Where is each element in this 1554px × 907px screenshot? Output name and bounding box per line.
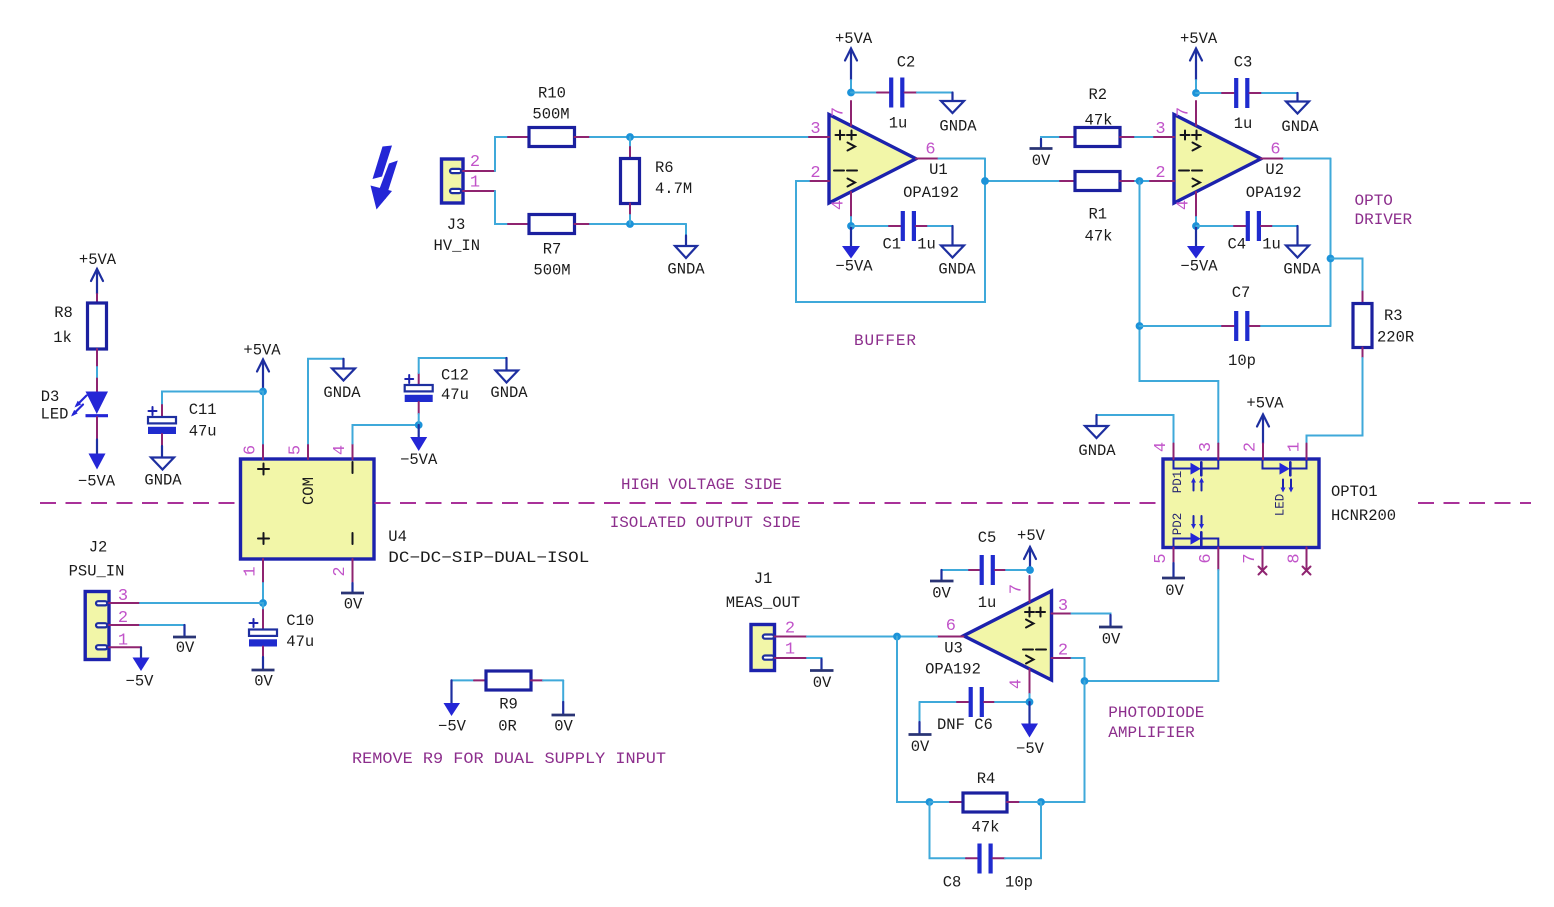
- wire J3.2 to top rail: [495, 137, 508, 171]
- pin 3 of OPTO1: [1197, 442, 1218, 459]
- svg-text:GNDA: GNDA: [1281, 118, 1319, 136]
- svg-text:4: 4: [1152, 442, 1171, 452]
- svg-text:+5VA: +5VA: [835, 30, 873, 48]
- svg-text:R3: R3: [1384, 307, 1403, 325]
- power 0V at C10: [252, 657, 275, 691]
- svg-text:PD1: PD1: [1171, 471, 1185, 494]
- svg-text:2: 2: [331, 566, 350, 576]
- DC-DC module U4: [241, 459, 590, 567]
- capacitor C2: [851, 54, 953, 133]
- junction R4 right node: [1037, 798, 1045, 806]
- pin 2 of U3: [1052, 642, 1072, 661]
- svg-text:HV_IN: HV_IN: [434, 237, 481, 255]
- svg-text:0V: 0V: [911, 738, 930, 756]
- svg-text:GNDA: GNDA: [939, 118, 977, 136]
- photodiode PD2 inside OPTO1: [1171, 513, 1218, 548]
- svg-text:7: 7: [830, 107, 849, 117]
- ground GNDA at OPTO pin4: [1078, 415, 1173, 460]
- svg-text:7: 7: [1241, 553, 1260, 563]
- svg-text:6: 6: [925, 141, 935, 160]
- svg-text:BUFFER: BUFFER: [854, 332, 916, 350]
- junction C12/-5VA node: [415, 421, 423, 429]
- svg-text:C12: C12: [441, 367, 469, 385]
- wire J3.1 to bottom rail: [495, 191, 508, 224]
- svg-text:R6: R6: [655, 159, 674, 177]
- pin 7 of U2: [1175, 101, 1197, 126]
- svg-text:R9: R9: [499, 696, 518, 714]
- svg-text:C10: C10: [286, 612, 314, 630]
- junction U4 pin1 / J2 / C10 node: [259, 599, 267, 607]
- connector J2: [69, 539, 125, 660]
- wire R10 to U1 pin3: [590, 136, 809, 138]
- capacitor C11 electrolytic: [148, 392, 263, 447]
- svg-text:47k: 47k: [1085, 112, 1113, 130]
- resistor R6: [621, 137, 693, 224]
- svg-text:500M: 500M: [533, 262, 570, 280]
- svg-text:0R: 0R: [498, 718, 517, 736]
- svg-text:C4: C4: [1227, 236, 1246, 254]
- svg-text:DRIVER: DRIVER: [1355, 211, 1413, 229]
- svg-text:J1: J1: [754, 570, 773, 588]
- junction U2 output / R3 branch: [1327, 255, 1335, 263]
- svg-text:D3: D3: [41, 388, 60, 406]
- svg-text:−5VA: −5VA: [78, 473, 116, 491]
- svg-text:GNDA: GNDA: [938, 261, 976, 279]
- svg-text:4: 4: [1008, 679, 1027, 689]
- power 0V at R9: [552, 680, 576, 735]
- svg-text:1u: 1u: [978, 594, 997, 612]
- svg-text:0V: 0V: [1165, 582, 1184, 600]
- ground GNDA at C11: [144, 446, 182, 490]
- capacitor C10 electrolytic: [249, 603, 314, 657]
- svg-text:HCNR200: HCNR200: [1331, 507, 1396, 525]
- pin 4 of U1: [830, 192, 852, 226]
- junction U3 pin7 node: [1026, 566, 1034, 574]
- power 0V at J1 pin1: [807, 658, 834, 692]
- power +5VA above U1: [835, 30, 873, 93]
- connector J3: [434, 159, 481, 255]
- pin 4 of OPTO1: [1152, 442, 1174, 459]
- wire J1 pin2 to U3 output: [807, 636, 937, 638]
- svg-text:U1: U1: [929, 161, 948, 179]
- svg-text:1: 1: [785, 641, 795, 660]
- svg-text:4: 4: [1175, 200, 1194, 210]
- svg-text:DNF C6: DNF C6: [937, 716, 993, 734]
- svg-text:C2: C2: [897, 54, 916, 72]
- LED inside OPTO1: [1263, 459, 1307, 516]
- junction R4 left node: [926, 798, 934, 806]
- pin 3 of J2: [109, 587, 140, 606]
- svg-text:1: 1: [118, 631, 128, 650]
- power 0V at R2: [1030, 137, 1061, 170]
- svg-text:3: 3: [1197, 442, 1216, 452]
- pin 3 of U2: [1154, 120, 1174, 139]
- capacitor C6: [920, 687, 1030, 734]
- svg-text:MEAS_OUT: MEAS_OUT: [726, 594, 800, 612]
- svg-text:2: 2: [470, 153, 480, 172]
- power 0V at C5: [930, 570, 954, 603]
- junction U2 pin7 node: [1192, 89, 1200, 97]
- svg-text:1: 1: [242, 566, 261, 576]
- svg-text:REMOVE R9 FOR DUAL SUPPLY INPU: REMOVE R9 FOR DUAL SUPPLY INPUT: [352, 750, 666, 768]
- junction U1 pin7 node: [847, 89, 855, 97]
- svg-text:4: 4: [331, 445, 350, 455]
- junction U4 pin6 node: [259, 388, 267, 396]
- power 0V at C6: [909, 702, 932, 756]
- pin 3 of U1: [809, 120, 829, 139]
- capacitor C8: [930, 802, 1042, 892]
- svg-text:U4: U4: [388, 528, 407, 546]
- power -5VA below U1: [835, 226, 873, 276]
- capacitor C1: [851, 211, 953, 254]
- svg-text:2: 2: [118, 609, 128, 628]
- wire U3 output node down to R4: [897, 637, 930, 803]
- capacitor C7: [1140, 284, 1331, 370]
- power -5V at R9: [438, 680, 467, 735]
- svg-text:C5: C5: [978, 529, 997, 547]
- svg-text:0V: 0V: [932, 585, 951, 603]
- power +5VA above R8: [79, 251, 117, 294]
- op-amp U3 OPA192 (mirrored): [925, 591, 1051, 680]
- svg-text:2: 2: [1155, 164, 1165, 183]
- pin 1 of J2: [109, 631, 141, 650]
- svg-text:LED: LED: [41, 406, 69, 424]
- power -5VA below D3: [78, 440, 116, 491]
- wire inverting node down to C7 and OPTO pin3: [1140, 181, 1219, 444]
- svg-text:PD2: PD2: [1171, 513, 1185, 536]
- svg-text:LED: LED: [1274, 494, 1288, 517]
- svg-text:+5VA: +5VA: [1246, 395, 1284, 413]
- svg-text:R8: R8: [54, 304, 73, 322]
- label PHOTODIODE AMPLIFIER: [1108, 704, 1204, 742]
- svg-text:5: 5: [1152, 553, 1171, 563]
- svg-text:1k: 1k: [53, 329, 72, 347]
- pin 7 of U1: [830, 101, 852, 126]
- pin 5 of OPTO1 with 0V: [1152, 548, 1185, 601]
- junction bottom rail: [626, 220, 634, 228]
- svg-text:3: 3: [810, 120, 820, 139]
- pin 4 of U3: [1008, 669, 1030, 702]
- capacitor C12 electrolytic: [405, 358, 507, 425]
- ground GNDA at C2: [939, 93, 977, 136]
- svg-text:2: 2: [810, 164, 820, 183]
- resistor R1: [1060, 172, 1150, 246]
- svg-text:47k: 47k: [972, 819, 1000, 837]
- svg-text:C1: C1: [882, 236, 901, 254]
- junction U1 pin4 node: [847, 222, 855, 230]
- pin 2 of J2: [109, 609, 140, 628]
- ground GNDA at C12: [490, 358, 528, 402]
- LED D3: [41, 379, 108, 440]
- svg-text:+5VA: +5VA: [243, 342, 281, 360]
- svg-text:6: 6: [946, 617, 956, 636]
- svg-text:0V: 0V: [554, 718, 573, 736]
- junction U3 output node: [893, 633, 901, 641]
- svg-text:ISOLATED OUTPUT SIDE: ISOLATED OUTPUT SIDE: [610, 514, 801, 532]
- junction C7 left node: [1136, 322, 1144, 330]
- svg-text:8: 8: [1286, 553, 1305, 563]
- isolation barrier dashed line left: [40, 502, 240, 504]
- svg-text:R7: R7: [543, 241, 562, 259]
- pin 2 of U4 with 0V: [331, 559, 364, 614]
- resistor R4: [930, 770, 1042, 837]
- wire to R3: [1331, 259, 1363, 292]
- capacitor C4: [1196, 211, 1298, 254]
- svg-text:−5VA: −5VA: [835, 258, 873, 276]
- isolation barrier dashed line right: [1418, 502, 1531, 504]
- junction top rail: [626, 133, 634, 141]
- svg-text:1: 1: [1286, 442, 1305, 452]
- svg-text:220R: 220R: [1377, 329, 1414, 347]
- pin 1 of OPTO1: [1286, 442, 1307, 459]
- svg-text:−5V: −5V: [438, 718, 467, 736]
- svg-text:GNDA: GNDA: [1078, 442, 1116, 460]
- svg-text:1u: 1u: [917, 236, 936, 254]
- resistor R3: [1353, 292, 1414, 359]
- svg-text:DC−DC−SIP−DUAL−ISOL: DC−DC−SIP−DUAL−ISOL: [388, 549, 589, 567]
- svg-text:OPTO: OPTO: [1355, 192, 1393, 210]
- power -5V at J2 pin1: [126, 647, 155, 690]
- svg-text:OPTO1: OPTO1: [1331, 483, 1378, 501]
- svg-text:10p: 10p: [1005, 874, 1033, 892]
- pin 2 of J1: [775, 620, 808, 639]
- svg-text:−5V: −5V: [126, 673, 155, 691]
- pin 4 of U2: [1175, 192, 1197, 226]
- junction U1 output node: [981, 177, 989, 185]
- wire R3 to OPTO pin1: [1307, 358, 1363, 444]
- pin 1 of J1: [775, 641, 808, 660]
- svg-text:0V: 0V: [813, 674, 832, 692]
- pin 6 of U4: [242, 392, 264, 460]
- svg-text:3: 3: [1058, 597, 1068, 616]
- svg-text:2: 2: [1242, 442, 1261, 452]
- pin 6 of U3: [937, 617, 964, 637]
- op-amp U2 OPA192: [1174, 115, 1302, 204]
- svg-text:R2: R2: [1088, 86, 1107, 104]
- pin 3 of U3: [1052, 597, 1072, 616]
- junction U3 pin4 node: [1026, 698, 1034, 706]
- svg-text:J2: J2: [89, 539, 108, 557]
- resistor R9: [452, 671, 564, 736]
- svg-text:47u: 47u: [286, 633, 314, 651]
- label OPTO DRIVER: [1355, 192, 1413, 229]
- pin 5 of U4 with GNDA: [287, 359, 362, 459]
- svg-text:R1: R1: [1088, 206, 1107, 224]
- svg-text:1u: 1u: [1262, 236, 1281, 254]
- pin 4 of U4: [331, 425, 419, 459]
- pin 1 of J3: [463, 174, 495, 193]
- svg-text:2: 2: [1058, 642, 1068, 661]
- power +5V at U3 pin7: [1017, 527, 1046, 570]
- svg-text:0V: 0V: [176, 639, 195, 657]
- optocoupler OPTO1 HCNR200 body: [1163, 459, 1396, 548]
- wire U1 output and feedback loop: [796, 159, 1060, 303]
- ground GNDA at C4: [1283, 226, 1321, 279]
- junction R1/U2 pin2 node: [1136, 177, 1144, 185]
- svg-text:−5VA: −5VA: [1180, 258, 1218, 276]
- pin 6 of OPTO1: [1197, 548, 1218, 571]
- resistor R7: [508, 215, 590, 280]
- resistor R8: [53, 294, 106, 379]
- svg-text:0V: 0V: [1032, 152, 1051, 170]
- svg-text:3: 3: [118, 587, 128, 606]
- svg-text:1u: 1u: [889, 115, 908, 133]
- svg-text:GNDA: GNDA: [1283, 261, 1321, 279]
- pin 2 of OPTO1: [1242, 442, 1264, 459]
- power +5VA above U4 pin6: [243, 342, 281, 392]
- power +5VA above U2: [1180, 30, 1218, 93]
- power -5V below U3: [1016, 702, 1045, 758]
- svg-text:+5VA: +5VA: [1180, 30, 1218, 48]
- capacitor C5: [942, 529, 1031, 612]
- power 0V at U3 pin3: [1072, 614, 1123, 649]
- power 0V at J2 pin2: [140, 625, 196, 657]
- svg-text:U2: U2: [1265, 161, 1284, 179]
- ground GNDA at C3: [1281, 93, 1319, 136]
- svg-text:−5V: −5V: [1016, 740, 1045, 758]
- svg-text:J3: J3: [447, 216, 466, 234]
- ground GNDA at C1: [938, 226, 976, 279]
- svg-text:+5VA: +5VA: [79, 251, 117, 269]
- op-amp U1 OPA192: [829, 115, 959, 204]
- svg-text:4: 4: [830, 200, 849, 210]
- svg-text:R10: R10: [538, 85, 566, 103]
- pin 7 of OPTO1 no-connect: [1241, 548, 1267, 575]
- svg-text:7: 7: [1175, 107, 1194, 117]
- svg-text:U3: U3: [944, 640, 963, 658]
- svg-text:GNDA: GNDA: [490, 384, 528, 402]
- connector J1: [726, 570, 800, 671]
- photodiode PD1 inside OPTO1: [1171, 459, 1218, 493]
- svg-text:C11: C11: [189, 401, 217, 419]
- svg-text:GNDA: GNDA: [667, 261, 705, 279]
- pin 1 of U4: [242, 559, 264, 603]
- svg-text:AMPLIFIER: AMPLIFIER: [1108, 724, 1195, 742]
- svg-text:4.7M: 4.7M: [655, 180, 692, 198]
- svg-text:1u: 1u: [1234, 115, 1253, 133]
- svg-text:R4: R4: [977, 770, 996, 788]
- wire U3 pin2 to feedback node: [1072, 658, 1085, 681]
- svg-text:PSU_IN: PSU_IN: [69, 563, 125, 581]
- svg-text:0V: 0V: [1102, 631, 1121, 649]
- svg-text:47k: 47k: [1085, 228, 1113, 246]
- power -5VA below U2: [1180, 226, 1218, 276]
- pin 6 of U2: [1261, 141, 1284, 160]
- high-voltage bolt symbol: [371, 146, 398, 210]
- pin 2 of U1: [809, 164, 829, 183]
- junction U2 pin4 node: [1192, 222, 1200, 230]
- svg-text:C8: C8: [943, 874, 962, 892]
- svg-text:1: 1: [470, 174, 480, 193]
- pin 2 of J3: [463, 153, 495, 172]
- pin 6 of U1: [916, 141, 939, 160]
- wire R7 to GNDA: [590, 223, 686, 225]
- svg-text:OPA192: OPA192: [1246, 184, 1302, 202]
- power +5VA at OPTO pin2: [1246, 395, 1284, 444]
- wire feedback node down to R4: [1041, 681, 1085, 802]
- svg-text:GNDA: GNDA: [323, 384, 361, 402]
- svg-text:+5V: +5V: [1017, 527, 1046, 545]
- svg-text:500M: 500M: [532, 106, 569, 124]
- junction U3 feedback node: [1081, 677, 1089, 685]
- svg-text:0V: 0V: [344, 596, 363, 614]
- svg-text:HIGH VOLTAGE SIDE: HIGH VOLTAGE SIDE: [621, 476, 782, 494]
- pin 2 of U2: [1150, 164, 1174, 183]
- svg-text:7: 7: [1008, 584, 1027, 594]
- svg-text:GNDA: GNDA: [144, 472, 182, 490]
- svg-text:3: 3: [1155, 120, 1165, 139]
- wire U2 output down to C7: [1284, 159, 1331, 327]
- svg-text:C7: C7: [1232, 284, 1251, 302]
- capacitor C3: [1196, 54, 1298, 134]
- svg-text:0V: 0V: [254, 673, 273, 691]
- svg-text:47u: 47u: [189, 423, 217, 441]
- svg-text:5: 5: [287, 445, 306, 455]
- svg-text:10p: 10p: [1228, 352, 1256, 370]
- svg-text:PHOTODIODE: PHOTODIODE: [1108, 704, 1204, 722]
- pin 8 of OPTO1 no-connect: [1286, 548, 1311, 575]
- wire OPTO pin6 to U3 feedback node: [1085, 570, 1219, 681]
- svg-text:47u: 47u: [441, 386, 469, 404]
- svg-text:6: 6: [1197, 553, 1216, 563]
- svg-text:OPA192: OPA192: [903, 184, 959, 202]
- svg-text:OPA192: OPA192: [925, 661, 981, 679]
- svg-text:6: 6: [242, 445, 261, 455]
- resistor R2: [1060, 86, 1154, 147]
- ground GNDA at R6/R7: [667, 224, 705, 279]
- resistor R10: [508, 85, 590, 147]
- wire J2 pin3 to U4 pin1 node: [140, 602, 263, 604]
- svg-text:2: 2: [785, 620, 795, 639]
- isolation barrier dashed line middle: [375, 502, 1164, 504]
- svg-text:C3: C3: [1234, 54, 1253, 72]
- svg-text:−5VA: −5VA: [400, 451, 438, 469]
- svg-text:COM: COM: [300, 477, 318, 505]
- power -5VA below C12: [400, 425, 438, 469]
- svg-text:6: 6: [1270, 141, 1280, 160]
- pin 7 of U3: [1008, 576, 1030, 602]
